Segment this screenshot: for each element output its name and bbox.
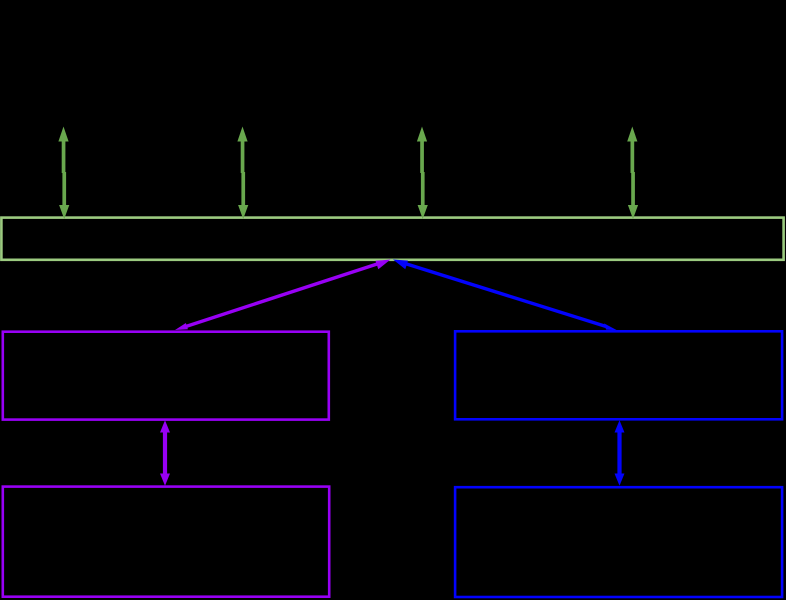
blue box 1 [455, 331, 782, 419]
blue vertical double arrow (box1 to box2) [615, 420, 625, 486]
purple box 2 [3, 487, 329, 597]
green bus bar node [1, 218, 783, 260]
purple vertical double arrow (box1 to box2) [160, 420, 170, 486]
green double arrow 4 [627, 127, 638, 220]
blue diagonal double arrow (bar to blue box 1) [393, 260, 617, 331]
green double arrow 2 [237, 127, 248, 220]
purple box 1 [3, 332, 329, 420]
green double arrow 1 [58, 127, 69, 220]
blue box 2 [455, 487, 782, 597]
green double arrow 3 [417, 127, 428, 220]
purple diagonal double arrow (bar to purple box 1) [175, 260, 391, 331]
